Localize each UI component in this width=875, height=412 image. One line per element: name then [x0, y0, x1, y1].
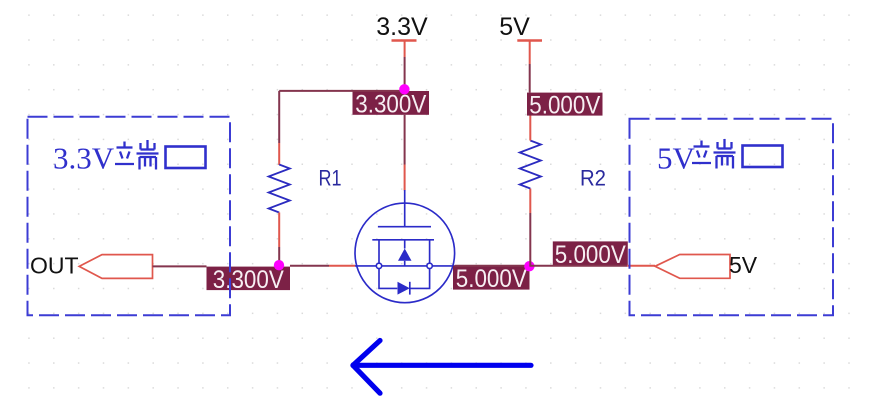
transistor Q1 (NMOS)	[355, 190, 455, 303]
text 3.3V端口	[53, 140, 206, 176]
port 5V	[655, 252, 758, 278]
probe label 3.300V top	[353, 91, 430, 119]
probe label 5.000V top	[527, 92, 603, 120]
port OUT	[30, 253, 153, 279]
power port 3.3V	[376, 13, 428, 41]
wire R1 bottom to OUT net	[278, 213, 280, 248]
svg-text:5.000V: 5.000V	[529, 92, 600, 120]
wire 3.3V rail (bar to junction)	[404, 41, 406, 58]
probe label 3.300V on OUT net	[207, 266, 291, 294]
wire probe box to transistor gate	[404, 115, 406, 165]
gate bar	[378, 226, 431, 228]
body diode loop	[379, 269, 397, 289]
resistor R1	[269, 165, 290, 213]
text 5V端口	[657, 139, 783, 176]
glyph 端	[115, 140, 159, 170]
arrow current direction	[353, 341, 531, 394]
box 5V domain (dashed)	[630, 119, 834, 315]
drain tick right	[429, 240, 431, 263]
channel bar	[372, 239, 434, 241]
glyph 口	[166, 147, 206, 169]
glyph 口	[743, 146, 783, 168]
junction node OUT net	[274, 260, 284, 270]
probe label 5.000V above wire	[553, 241, 628, 269]
svg-text:3.300V: 3.300V	[355, 91, 426, 119]
svg-text:OUT: OUT	[30, 253, 79, 279]
transistor body circle	[355, 203, 455, 303]
wire 5V rail (bar to probe box)	[529, 41, 531, 65]
wire junction to 5V port	[529, 265, 627, 267]
svg-text:5V: 5V	[657, 141, 696, 176]
glyph 端	[692, 139, 736, 169]
arrow (N-channel)	[398, 249, 412, 261]
svg-text:R1: R1	[319, 166, 342, 191]
gate pin	[404, 190, 406, 227]
wire probe box to transistor (left)	[290, 265, 329, 267]
svg-text:3.300V: 3.300V	[213, 266, 284, 294]
middle tick	[404, 240, 406, 249]
source tick left	[378, 240, 380, 263]
wire transistor to junction (right)	[455, 265, 530, 267]
svg-text:3.3V: 3.3V	[376, 13, 428, 41]
resistor R2	[520, 141, 541, 189]
probe label 5.000V on source net (below wire)	[453, 265, 530, 293]
wire R2 top to probe box	[529, 115, 531, 140]
power port 5V	[499, 13, 542, 41]
wire down left to R1	[278, 91, 280, 143]
svg-text:5.000V: 5.000V	[555, 241, 626, 269]
channel wire inside	[355, 265, 455, 267]
svg-text:3.3V: 3.3V	[53, 141, 115, 176]
svg-text:R2: R2	[580, 166, 606, 191]
svg-text:5V: 5V	[729, 252, 758, 278]
junction node 3.3V rail	[399, 84, 409, 94]
svg-text:5V: 5V	[499, 13, 530, 41]
wire 3.300V net to R1 (horizontal at y=91)	[279, 90, 404, 92]
wire OUT port to probe box	[153, 265, 207, 267]
wire junction up to R2	[529, 213, 531, 266]
box 3.3V domain (dashed)	[28, 117, 231, 315]
drain node circle	[427, 263, 432, 268]
source node circle	[376, 263, 381, 268]
svg-text:5.000V: 5.000V	[456, 265, 527, 293]
junction node 5V net	[524, 261, 534, 271]
